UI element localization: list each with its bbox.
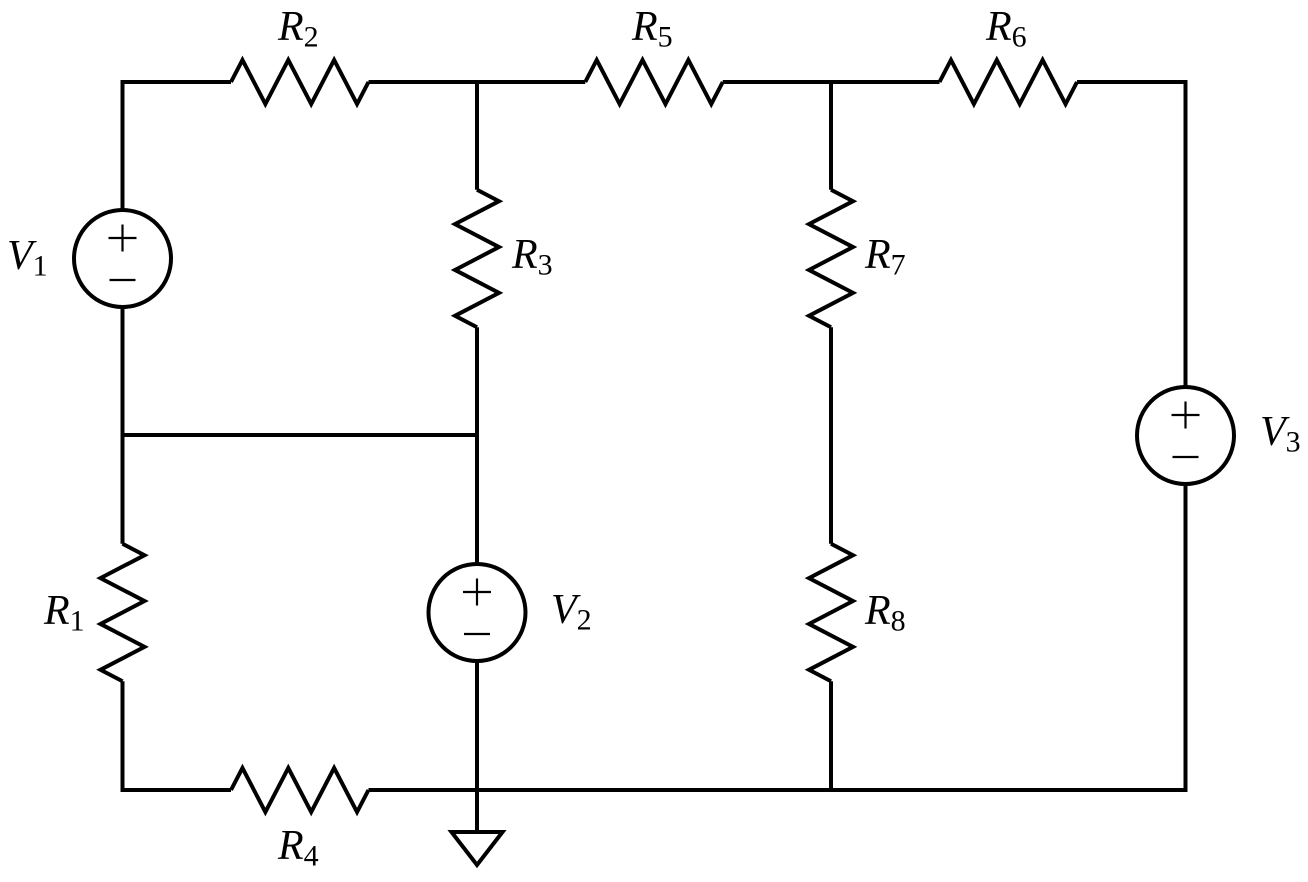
svg-text:V3: V3 — [1260, 409, 1301, 459]
wire top rail right segment — [1077, 80, 1188, 84]
wire bottom rail right segment — [369, 788, 1188, 792]
V2 plus sign — [463, 579, 491, 606]
V1 minus sign — [110, 279, 136, 281]
V2 minus sign — [464, 633, 490, 635]
voltage source V1 — [74, 210, 171, 307]
wire middle column lower — [475, 661, 479, 791]
V3 minus sign — [1173, 456, 1199, 458]
svg-text:V1: V1 — [7, 233, 48, 283]
resistor R4 — [231, 768, 369, 812]
wire left column middle — [121, 307, 125, 544]
wire bottom rail left segment — [121, 788, 232, 792]
svg-text:R5: R5 — [631, 4, 673, 54]
wire top rail second segment — [369, 80, 586, 84]
wire R8 column lower — [829, 681, 833, 790]
wire middle horizontal (node A) — [123, 433, 478, 437]
voltage source V3 — [1137, 387, 1234, 484]
svg-text:R3: R3 — [511, 232, 553, 282]
V1 plus sign — [109, 225, 137, 252]
wire right column upper — [1184, 82, 1188, 388]
svg-text:R2: R2 — [277, 4, 319, 54]
wire R7-R8 connecting — [829, 327, 833, 544]
wire middle column center — [475, 327, 479, 564]
resistor R3 — [455, 190, 499, 328]
svg-text:R7: R7 — [864, 232, 906, 282]
V3 plus sign — [1172, 402, 1200, 429]
wire right column lower — [1184, 484, 1188, 791]
wire left column upper — [121, 82, 125, 211]
resistor R1 — [101, 544, 145, 682]
resistor R6 — [940, 60, 1078, 104]
wire R7 column top — [829, 82, 833, 190]
svg-text:R1: R1 — [43, 588, 85, 638]
svg-text:R6: R6 — [985, 4, 1027, 54]
ground — [452, 832, 503, 865]
wire top rail third segment — [723, 80, 940, 84]
resistor R8 — [809, 544, 853, 682]
wire left column lower — [121, 681, 125, 790]
resistor R5 — [585, 60, 723, 104]
svg-text:V2: V2 — [551, 587, 592, 637]
wire top rail left segment — [121, 80, 232, 84]
wire middle column top — [475, 82, 479, 190]
resistor R7 — [809, 190, 853, 328]
wire ground tail — [475, 790, 479, 832]
svg-text:R4: R4 — [277, 823, 319, 873]
resistor R2 — [231, 60, 369, 104]
voltage source V2 — [429, 564, 526, 661]
svg-text:R8: R8 — [864, 588, 906, 638]
